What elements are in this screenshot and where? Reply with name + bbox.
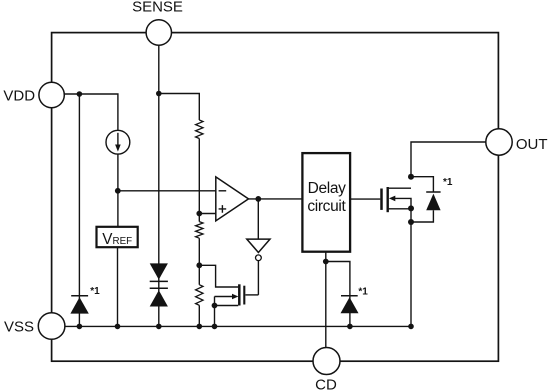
- svg-text:OUT: OUT: [516, 136, 548, 153]
- svg-text:circuit: circuit: [307, 198, 346, 215]
- svg-text:VDD: VDD: [3, 87, 35, 104]
- svg-text:*1: *1: [443, 177, 453, 188]
- svg-text:CD: CD: [315, 376, 337, 392]
- svg-text:VSS: VSS: [4, 318, 34, 335]
- svg-text:SENSE: SENSE: [132, 0, 183, 16]
- svg-text:*1: *1: [90, 286, 100, 297]
- svg-text:REF: REF: [113, 236, 133, 247]
- svg-text:Delay: Delay: [308, 180, 346, 197]
- svg-text:*1: *1: [358, 287, 368, 298]
